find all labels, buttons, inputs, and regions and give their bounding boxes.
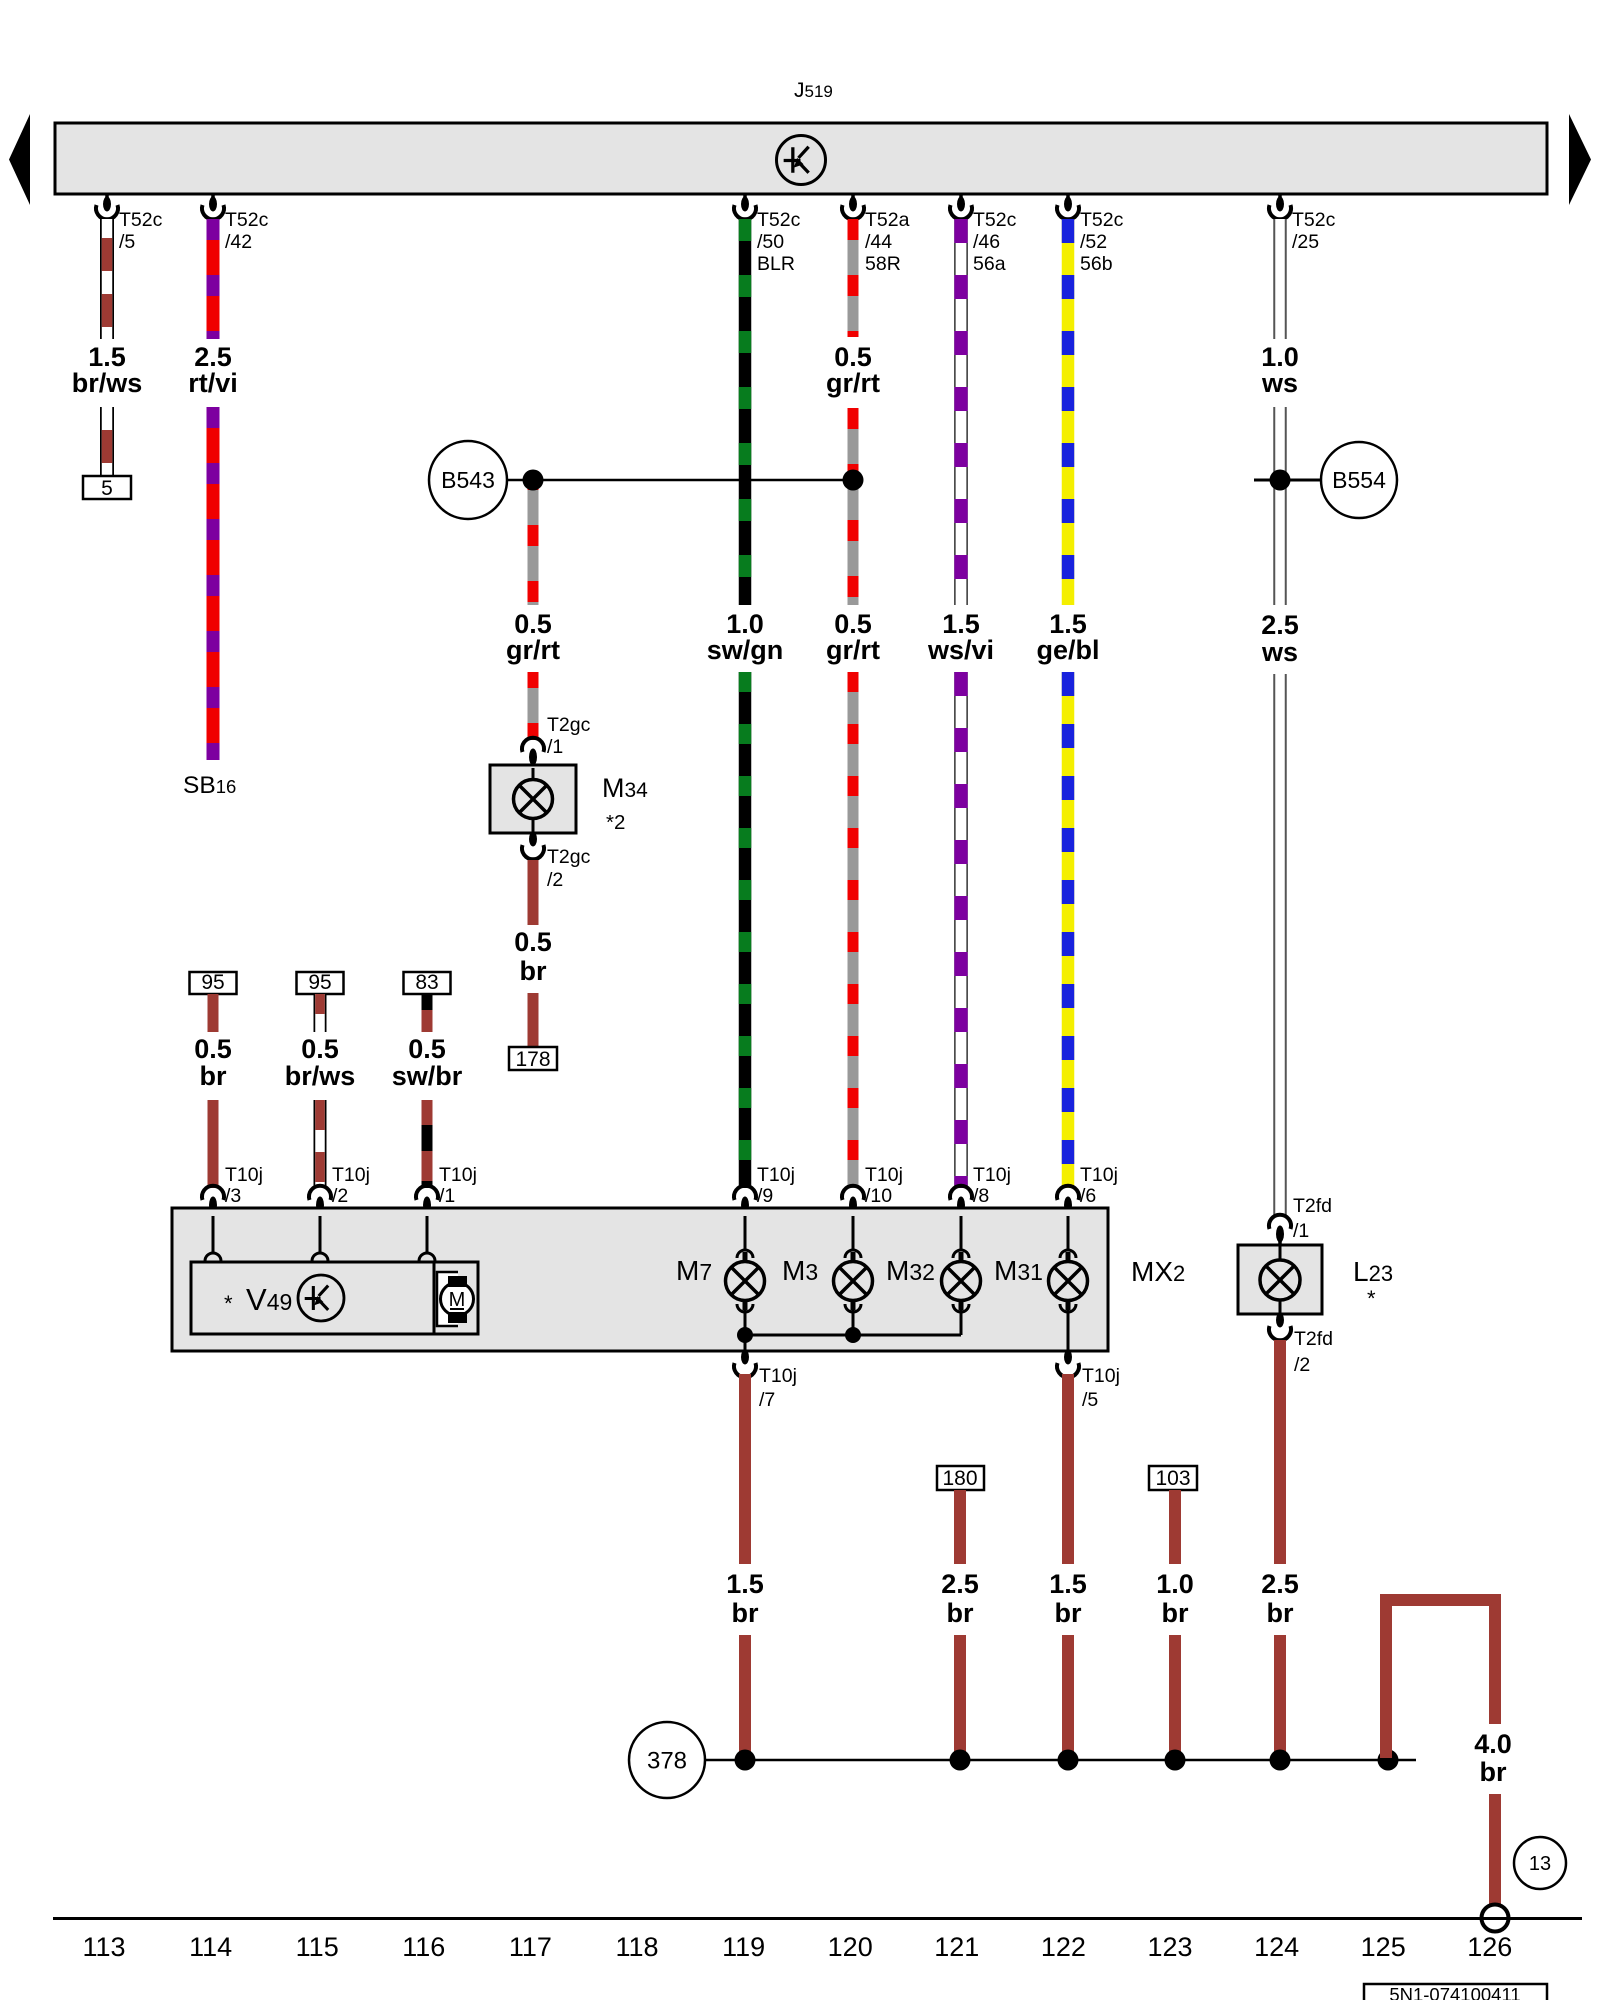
- svg-text:2.5: 2.5: [1261, 1569, 1299, 1599]
- svg-text:/6: /6: [1080, 1185, 1096, 1207]
- svg-text:/8: /8: [973, 1185, 989, 1207]
- svg-text:121: 121: [934, 1932, 979, 1962]
- svg-text:T10j: T10j: [439, 1164, 477, 1186]
- svg-text:sw/gn: sw/gn: [707, 635, 784, 665]
- svg-text:MX2: MX2: [1131, 1256, 1185, 1287]
- svg-text:1.5: 1.5: [726, 1569, 764, 1599]
- svg-text:ge/bl: ge/bl: [1036, 635, 1099, 665]
- svg-text:B554: B554: [1332, 467, 1386, 493]
- svg-text:95: 95: [201, 971, 224, 994]
- svg-text:/46: /46: [973, 231, 1000, 253]
- svg-text:56b: 56b: [1080, 253, 1113, 275]
- svg-text:0.5: 0.5: [408, 1034, 446, 1064]
- svg-text:ws: ws: [1261, 368, 1298, 398]
- svg-text:T10j: T10j: [1080, 1164, 1118, 1186]
- svg-text:180: 180: [942, 1467, 977, 1490]
- svg-text:T52c: T52c: [1080, 209, 1124, 231]
- svg-text:sw/br: sw/br: [392, 1061, 463, 1091]
- svg-text:116: 116: [402, 1932, 445, 1962]
- svg-text:117: 117: [509, 1932, 552, 1962]
- svg-text:B543: B543: [441, 467, 495, 493]
- svg-text:br: br: [1055, 1598, 1082, 1628]
- svg-text:115: 115: [296, 1932, 339, 1962]
- svg-text:T2fd: T2fd: [1294, 1328, 1333, 1350]
- svg-text:T10j: T10j: [759, 1365, 797, 1387]
- svg-text:M31: M31: [994, 1255, 1043, 1286]
- svg-text:113: 113: [82, 1932, 125, 1962]
- svg-text:T2gc: T2gc: [547, 846, 591, 868]
- svg-text:13: 13: [1529, 1853, 1551, 1875]
- svg-text:br: br: [200, 1061, 227, 1091]
- svg-text:M7: M7: [676, 1255, 712, 1286]
- svg-text:4.0: 4.0: [1474, 1729, 1512, 1759]
- svg-text:T52a: T52a: [865, 209, 910, 231]
- svg-text:/2: /2: [1294, 1354, 1310, 1376]
- svg-text:378: 378: [647, 1747, 687, 1774]
- svg-text:T52c: T52c: [973, 209, 1017, 231]
- svg-text:2.5: 2.5: [1261, 610, 1299, 640]
- svg-text:/1: /1: [547, 736, 563, 758]
- svg-text:br: br: [1162, 1598, 1189, 1628]
- svg-text:br: br: [947, 1598, 974, 1628]
- svg-text:/52: /52: [1080, 231, 1107, 253]
- svg-text:ws: ws: [1261, 637, 1298, 667]
- svg-text:*: *: [1367, 1286, 1376, 1311]
- svg-text:/2: /2: [547, 869, 563, 891]
- svg-text:rt/vi: rt/vi: [188, 368, 238, 398]
- svg-text:BLR: BLR: [757, 253, 795, 275]
- svg-text:br: br: [520, 956, 547, 986]
- svg-text:95: 95: [308, 971, 331, 994]
- svg-text:gr/rt: gr/rt: [506, 635, 560, 665]
- svg-text:br: br: [732, 1598, 759, 1628]
- svg-text:/42: /42: [225, 231, 252, 253]
- svg-text:103: 103: [1155, 1467, 1190, 1490]
- svg-text:T10j: T10j: [757, 1164, 795, 1186]
- svg-text:0.5: 0.5: [301, 1034, 339, 1064]
- svg-text:T52c: T52c: [119, 209, 163, 231]
- svg-text:114: 114: [189, 1932, 232, 1962]
- svg-text:2.5: 2.5: [941, 1569, 979, 1599]
- svg-text:T10j: T10j: [1082, 1365, 1120, 1387]
- svg-text:/5: /5: [1082, 1389, 1098, 1411]
- svg-text:119: 119: [722, 1932, 765, 1962]
- svg-text:br: br: [1480, 1757, 1507, 1787]
- svg-text:58R: 58R: [865, 253, 901, 275]
- svg-text:126: 126: [1467, 1932, 1512, 1962]
- svg-text:/25: /25: [1292, 231, 1319, 253]
- svg-text:1.5: 1.5: [1049, 1569, 1087, 1599]
- svg-text:*: *: [224, 1291, 233, 1316]
- svg-text:T2fd: T2fd: [1293, 1195, 1332, 1217]
- svg-text:*2: *2: [606, 811, 625, 834]
- svg-text:T52c: T52c: [1292, 209, 1336, 231]
- svg-text:/1: /1: [1293, 1220, 1309, 1242]
- svg-text:123: 123: [1147, 1932, 1192, 1962]
- svg-text:M32: M32: [886, 1255, 935, 1286]
- svg-text:SB16: SB16: [183, 772, 236, 799]
- svg-text:M: M: [449, 1289, 466, 1311]
- svg-text:/2: /2: [332, 1185, 348, 1207]
- svg-text:J519: J519: [794, 79, 833, 102]
- svg-text:5: 5: [101, 477, 113, 500]
- svg-text:124: 124: [1254, 1932, 1299, 1962]
- svg-text:122: 122: [1041, 1932, 1086, 1962]
- svg-text:/5: /5: [119, 231, 135, 253]
- svg-text:ws/vi: ws/vi: [927, 635, 994, 665]
- svg-text:/3: /3: [225, 1185, 241, 1207]
- svg-text:T10j: T10j: [225, 1164, 263, 1186]
- svg-text:br: br: [1267, 1598, 1294, 1628]
- svg-text:/50: /50: [757, 231, 784, 253]
- svg-text:T10j: T10j: [865, 1164, 903, 1186]
- svg-text:M3: M3: [782, 1255, 818, 1286]
- svg-text:gr/rt: gr/rt: [826, 635, 880, 665]
- svg-text:/9: /9: [757, 1185, 773, 1207]
- svg-text:T52c: T52c: [757, 209, 801, 231]
- svg-text:br/ws: br/ws: [285, 1061, 356, 1091]
- svg-text:0.5: 0.5: [194, 1034, 232, 1064]
- svg-text:T2gc: T2gc: [547, 714, 591, 736]
- svg-text:118: 118: [615, 1932, 658, 1962]
- svg-text:T52c: T52c: [225, 209, 269, 231]
- svg-text:br/ws: br/ws: [72, 368, 143, 398]
- svg-text:125: 125: [1361, 1932, 1406, 1962]
- svg-text:0.5: 0.5: [514, 927, 552, 957]
- svg-text:T10j: T10j: [332, 1164, 370, 1186]
- svg-text:56a: 56a: [973, 253, 1006, 275]
- svg-text:/1: /1: [439, 1185, 455, 1207]
- svg-text:5N1-074100411: 5N1-074100411: [1389, 1984, 1520, 2000]
- svg-text:83: 83: [415, 971, 438, 994]
- svg-text:178: 178: [515, 1048, 550, 1071]
- svg-text:/10: /10: [865, 1185, 892, 1207]
- svg-text:gr/rt: gr/rt: [826, 368, 880, 398]
- svg-text:/7: /7: [759, 1389, 775, 1411]
- svg-text:/44: /44: [865, 231, 892, 253]
- svg-text:T10j: T10j: [973, 1164, 1011, 1186]
- svg-text:1.0: 1.0: [1156, 1569, 1194, 1599]
- svg-text:L23: L23: [1353, 1256, 1393, 1287]
- svg-text:120: 120: [828, 1932, 873, 1962]
